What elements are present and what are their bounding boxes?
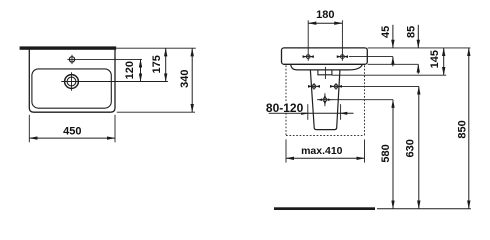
dimension 850 <box>468 48 470 209</box>
svg-text:180: 180 <box>316 9 334 21</box>
dimension 120 <box>140 59 142 81</box>
dimension 80-120 <box>307 104 309 120</box>
faucet hole <box>69 57 74 62</box>
extension line pipe holes to 630 dim <box>342 85 419 87</box>
extension line 450 right <box>114 115 116 143</box>
faucet hole centerline / extension to 120 dim <box>67 58 142 60</box>
fixing hole right (slab) <box>337 55 348 59</box>
svg-text:175: 175 <box>151 55 163 73</box>
dimension 45 <box>392 25 394 48</box>
floor line thick <box>274 207 375 210</box>
svg-text:45: 45 <box>380 26 392 38</box>
extension line rear edge to 340/175 dims <box>116 47 196 49</box>
extension line drain fitting bottom to 145 dim <box>332 74 446 76</box>
extension line fixing holes to 45 dim <box>349 56 393 58</box>
dashed clearance zone bottom <box>286 135 365 137</box>
svg-text:580: 580 <box>380 144 392 162</box>
basin inner bowl (top view) <box>32 69 111 108</box>
svg-text:120: 120 <box>124 61 136 79</box>
dashed clearance zone right <box>364 65 366 135</box>
extension line trap outlet to 580 dim <box>332 99 393 101</box>
dimension 180 <box>307 20 309 61</box>
svg-text:340: 340 <box>179 70 191 88</box>
pipe fixing hole left <box>308 83 320 90</box>
extension line slab bottom to 85 dim <box>368 63 419 65</box>
svg-text:145: 145 <box>429 50 441 68</box>
drain centre tick <box>324 67 326 79</box>
wall line (top view) <box>20 46 117 49</box>
drain outer circle <box>65 75 79 89</box>
svg-text:850: 850 <box>457 120 469 138</box>
dimension 340 <box>191 48 193 112</box>
fixing hole left (slab) <box>303 55 314 59</box>
dashed clearance zone left <box>285 65 287 135</box>
extension line 450 left <box>28 115 30 143</box>
svg-text:80-120: 80-120 <box>266 101 304 115</box>
siphon cover (tapered pipe) <box>310 70 340 129</box>
dimension 175 <box>165 48 167 81</box>
dimension 145 <box>443 48 445 75</box>
slab outline (front view) <box>282 48 368 64</box>
bowl underside (front view) <box>291 64 363 70</box>
dimension 630 <box>418 86 420 208</box>
drain inner circle <box>67 77 76 86</box>
dimension max.410 <box>285 139 287 162</box>
trap outlet symbol <box>317 93 333 106</box>
pipe fixing hole right <box>330 83 342 90</box>
drain horizontal centerline / extension to 175 dim <box>61 81 168 83</box>
dimension 85 <box>417 25 419 48</box>
svg-text:max.410: max.410 <box>301 145 343 157</box>
drain fitting notch <box>318 70 332 75</box>
svg-text:85: 85 <box>406 26 418 38</box>
dimension 450 <box>29 137 115 139</box>
dimension 580 <box>392 100 394 209</box>
extension line slab top to 850 dim <box>368 47 471 49</box>
drain vertical centerline <box>71 72 73 91</box>
basin outer outline (top view) <box>29 48 115 112</box>
svg-text:630: 630 <box>405 139 417 157</box>
svg-text:450: 450 <box>63 125 81 137</box>
extension line basin front edge to 340 dim <box>117 111 195 113</box>
floor line thin <box>377 208 471 210</box>
